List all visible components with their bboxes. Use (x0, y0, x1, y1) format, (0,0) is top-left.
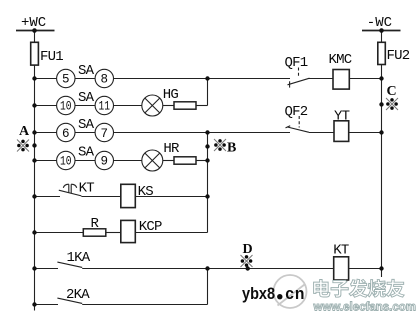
junction row3 / mid riser (205, 130, 209, 134)
svg-text:FU2: FU2 (387, 48, 410, 64)
svg-text:B: B (227, 141, 236, 156)
wire KT contact to KS (81, 196, 120, 198)
lamp HG (142, 95, 163, 116)
switch SA contact 6 (57, 123, 75, 141)
svg-text:YT: YT (334, 109, 350, 125)
coil KCP (121, 220, 136, 242)
svg-text:HR: HR (163, 141, 180, 157)
fuse FU2 (378, 42, 386, 64)
switch SA contact 11 (95, 96, 113, 114)
wire row3 mid (75, 132, 95, 134)
wire lamp to resistor (163, 160, 174, 162)
svg-text:8: 8 (101, 73, 109, 87)
wire QF2 to YT (309, 132, 334, 134)
resistor HR series (174, 157, 196, 164)
switch SA contact 10 (57, 96, 75, 114)
junction left bus row3 (32, 130, 36, 134)
svg-text:FU1: FU1 (40, 49, 63, 65)
svg-text:cn: cn (285, 285, 305, 303)
wire row6 left (35, 232, 84, 234)
svg-text:KCP: KCP (139, 219, 162, 235)
wire resistor to mid riser (196, 160, 208, 162)
junction left bus row6 (32, 230, 36, 234)
coil KS (121, 184, 136, 207)
svg-text:HG: HG (163, 87, 179, 103)
breaker QF2 (286, 116, 310, 132)
svg-text:KS: KS (138, 184, 154, 200)
svg-text:SA: SA (78, 117, 95, 133)
svg-text:1KA: 1KA (67, 250, 91, 266)
node D junction (246, 266, 250, 270)
logo elecfans characters (314, 279, 405, 297)
svg-text:11: 11 (99, 100, 111, 114)
coil KT (334, 257, 349, 280)
wire KT coil to right bus (349, 268, 382, 270)
svg-text:10: 10 (60, 100, 72, 114)
wire right bus (381, 31, 383, 278)
wire KCP to mid riser (135, 232, 207, 234)
node B junction (205, 144, 209, 148)
wire YT to right bus (349, 132, 382, 134)
reference mark at A (17, 140, 29, 152)
lamp HR (142, 150, 163, 171)
node +WC bus bar (16, 30, 55, 32)
node A junction (32, 143, 36, 147)
svg-text:KT: KT (79, 181, 95, 197)
junction left bus row8 (32, 302, 36, 306)
junction -WC bus / right bus (379, 28, 384, 33)
svg-text:ybx8: ybx8 (242, 285, 275, 303)
coil KMC (333, 70, 349, 90)
wire row7 left (35, 268, 59, 270)
resistor HG series (174, 102, 196, 109)
wire R to KCP (106, 232, 121, 234)
watermark dot (277, 294, 282, 299)
watermark ybx8 swoosh (274, 275, 307, 308)
wire row1 to QF1 (114, 78, 291, 80)
junction left bus row4 (32, 158, 36, 162)
wire row2 mid (75, 105, 95, 107)
contact 2KA (57, 298, 82, 303)
switch SA contact 10b (57, 151, 75, 169)
wire QF1 to KMC (309, 78, 333, 80)
wire KS to mid riser (135, 196, 207, 198)
switch SA contact 8 (95, 69, 113, 87)
contact 1KA (57, 262, 82, 267)
svg-text:A: A (19, 124, 30, 139)
reference mark at D (241, 255, 253, 267)
junction +WC bus / left bus (32, 28, 37, 33)
wire row4 to lamp (114, 160, 142, 162)
svg-text:D: D (243, 242, 253, 257)
svg-text:SA: SA (78, 90, 95, 106)
wire mid riser B (207, 133, 209, 233)
wire row3 left (35, 132, 57, 134)
wire riser row7-row8 (207, 269, 209, 305)
svg-text:KT: KT (333, 242, 349, 258)
svg-text:5: 5 (62, 73, 70, 87)
junction row7 / 2KA riser (205, 266, 209, 270)
svg-text:10: 10 (60, 155, 72, 169)
wire resistor to riser (196, 105, 208, 107)
junction left bus row7 (32, 266, 36, 270)
svg-text:+WC: +WC (21, 15, 46, 31)
wire KMC to right bus (349, 78, 381, 80)
wire row8 left (35, 304, 59, 306)
svg-text:7: 7 (101, 127, 109, 141)
node C junction (379, 102, 383, 106)
svg-text:-WC: -WC (367, 15, 392, 31)
breaker QF1 (288, 68, 310, 88)
node -WC bus bar (362, 30, 401, 32)
svg-text:www.elecfans.com: www.elecfans.com (313, 302, 416, 314)
wire row1 mid (75, 78, 95, 80)
wire row5 left (35, 196, 61, 198)
svg-text:9: 9 (101, 155, 109, 169)
junction right bus KT (379, 266, 383, 270)
junction left bus row2 (32, 103, 36, 107)
wire row4 mid (75, 160, 95, 162)
svg-text:QF2: QF2 (285, 104, 308, 120)
junction mid riser row4 (205, 158, 209, 162)
svg-text:SA: SA (78, 145, 95, 161)
wire row7 to KT coil (82, 268, 334, 270)
resistor R (83, 229, 106, 236)
fuse FU1 (31, 42, 39, 65)
wire left bus (34, 31, 36, 311)
wire lamp to resistor (163, 105, 174, 107)
coil YT (334, 121, 349, 142)
junction left bus row1 (32, 76, 36, 80)
svg-text:KMC: KMC (329, 52, 352, 68)
wire row2 to lamp (114, 105, 142, 107)
junction right bus KMC (379, 76, 383, 80)
wire row4 left (35, 160, 57, 162)
wire row3 to QF2 (114, 132, 291, 134)
junction right bus YT (379, 130, 383, 134)
junction left bus row5 (32, 194, 36, 198)
svg-text:6: 6 (62, 127, 70, 141)
junction row1 / HG riser (205, 76, 209, 80)
wire row2 left (35, 105, 57, 107)
contact KT delayed (59, 184, 82, 196)
switch SA contact 9 (95, 151, 113, 169)
switch SA contact 5 (57, 69, 75, 87)
wire row1 left (35, 78, 57, 80)
junction mid riser row5 (205, 194, 209, 198)
reference mark at C (386, 98, 398, 110)
svg-text:QF1: QF1 (285, 55, 308, 71)
svg-text:C: C (387, 84, 397, 99)
wire riser row1-row2 (207, 79, 209, 106)
svg-text:2KA: 2KA (66, 287, 90, 303)
switch SA contact 7 (95, 123, 113, 141)
svg-text:SA: SA (78, 63, 95, 79)
reference mark at B (214, 139, 226, 151)
wire row8 to riser (82, 304, 207, 306)
